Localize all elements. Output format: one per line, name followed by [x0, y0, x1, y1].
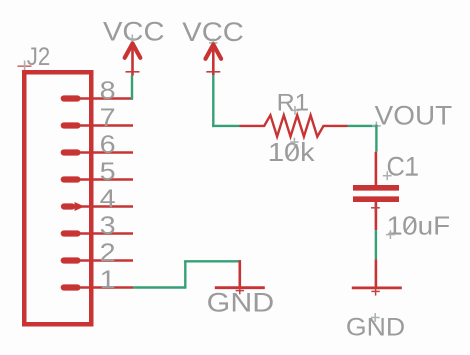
- svg-text:4: 4: [100, 185, 116, 213]
- resistor R1: [240, 115, 348, 136]
- pin 5 line: [80, 178, 133, 180]
- capacitor C1 pin cross: [371, 203, 380, 212]
- supply VCC #1 label: [103, 16, 165, 46]
- pin 2 bump: [64, 257, 78, 263]
- supply VCC #1 pin cross: [126, 71, 140, 73]
- ground GND right label origin cross: [371, 313, 380, 322]
- pin 1 number: [100, 266, 116, 294]
- pin 4 line: [80, 205, 133, 207]
- pin 8 number: [100, 77, 116, 105]
- svg-text:VCC: VCC: [103, 16, 165, 46]
- wire VOUT down to capacitor C1: [375, 125, 377, 152]
- svg-text:6: 6: [100, 131, 116, 159]
- ground GND left lead: [239, 260, 242, 288]
- pin 1 line: [80, 286, 133, 288]
- capacitor C1 name origin cross: [383, 171, 392, 180]
- svg-text:3: 3: [100, 212, 116, 240]
- connector J2 origin cross: [18, 61, 32, 72]
- ground GND right bar: [352, 286, 402, 289]
- svg-text:7: 7: [100, 104, 116, 132]
- connector J2 body: [24, 72, 91, 324]
- node VOUT label: [375, 101, 453, 131]
- capacitor C1 name label: [387, 152, 420, 182]
- capacitor C1: [353, 152, 399, 231]
- capacitor C1 value origin cross: [386, 230, 395, 239]
- svg-text:2: 2: [100, 239, 116, 267]
- supply VCC #1 label origin cross: [128, 35, 137, 44]
- ground GND left pin cross: [236, 286, 244, 294]
- wire VCC1 to pin 8: [131, 76, 133, 100]
- pin 7 bump: [64, 122, 78, 128]
- svg-text:8: 8: [100, 77, 116, 105]
- wire resistor right to VOUT node: [348, 125, 378, 127]
- capacitor C1 value label 10uF: [387, 211, 451, 241]
- svg-text:C1: C1: [387, 152, 420, 182]
- pin 7 line: [80, 124, 133, 126]
- wire capacitor C1 to GND: [375, 230, 377, 259]
- ground GND left label: [207, 287, 275, 317]
- pin 6 line: [80, 151, 133, 153]
- pin 4 number: [100, 185, 116, 213]
- pin 2 number: [100, 239, 116, 267]
- svg-text:10uF: 10uF: [387, 211, 451, 241]
- pin 4 bump with arrow: [64, 202, 85, 211]
- resistor R1 name label: [277, 89, 309, 116]
- pin 3 line: [80, 232, 133, 234]
- wire pin 1 to GND: horizontal from pin 1: [133, 286, 185, 288]
- pin 6 number: [100, 131, 116, 159]
- svg-text:5: 5: [100, 158, 116, 186]
- wire node to resistor R1 left: [212, 125, 239, 127]
- resistor R1 value label 10k: [268, 137, 316, 167]
- wire pin 1 to GND: horizontal top run: [184, 260, 240, 262]
- wire VCC2 down to node: [212, 75, 214, 127]
- pin 5 number: [100, 158, 116, 186]
- ground GND right lead: [375, 259, 378, 288]
- svg-text:1: 1: [100, 266, 116, 294]
- pin 7 number: [100, 104, 116, 132]
- pin 2 line: [80, 259, 133, 261]
- pin 1 bump: [64, 284, 78, 290]
- ground GND right pin cross: [371, 287, 379, 295]
- wire pin 1 to GND: vertical riser: [184, 261, 186, 288]
- svg-text:GND: GND: [207, 287, 275, 317]
- pin 3 number: [100, 212, 116, 240]
- svg-text:VOUT: VOUT: [375, 101, 453, 131]
- node VOUT origin cross: [372, 122, 381, 131]
- supply VCC #2 arrow symbol: [206, 44, 222, 75]
- svg-text:R1: R1: [277, 89, 309, 116]
- resistor R1 value origin cross: [290, 138, 298, 147]
- supply VCC #1 arrow symbol: [125, 43, 141, 76]
- pin 3 bump: [64, 230, 78, 236]
- pin 8 line: [80, 97, 133, 99]
- ground GND right label: [346, 313, 405, 341]
- pin 5 bump: [64, 176, 78, 182]
- supply VCC #2 label: [182, 17, 244, 47]
- supply VCC #2 label origin cross: [209, 38, 218, 47]
- resistor R1 name origin cross: [291, 106, 299, 115]
- pin 6 bump: [64, 149, 78, 155]
- connector J2 label: [27, 43, 51, 71]
- supply VCC #2 pin cross: [206, 71, 220, 73]
- ground GND left bar: [215, 286, 265, 289]
- pin 8 bump: [64, 95, 78, 101]
